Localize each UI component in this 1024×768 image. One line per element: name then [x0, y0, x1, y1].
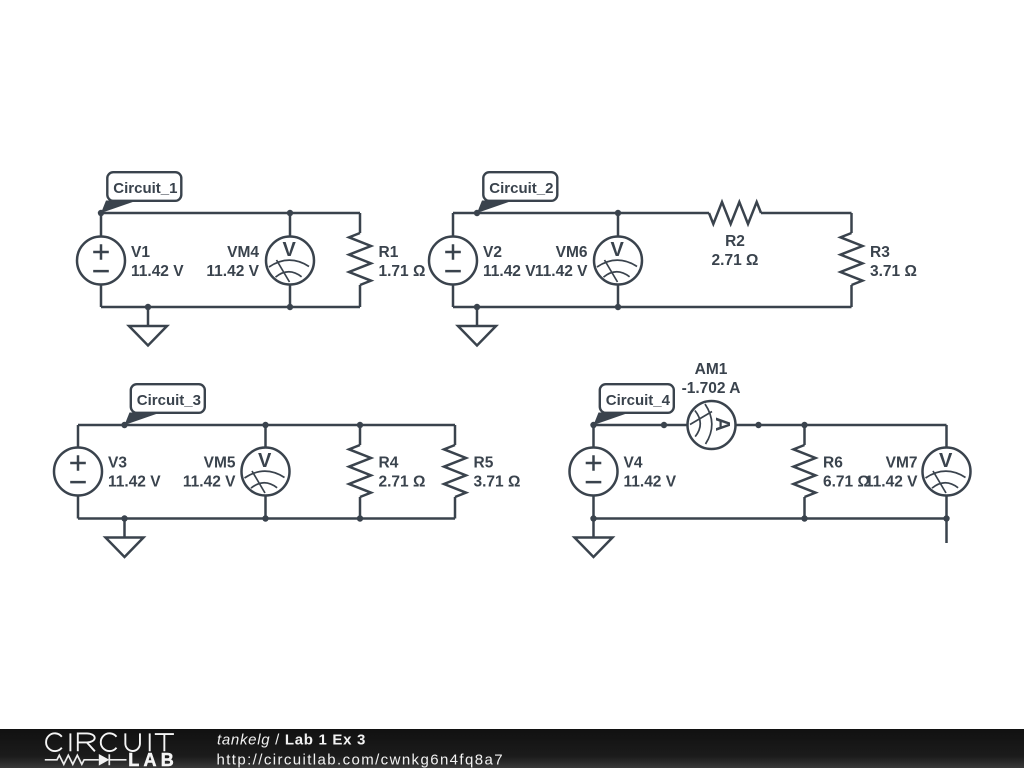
svg-text:AM1: AM1	[695, 361, 728, 378]
svg-text:11.42 V: 11.42 V	[183, 474, 236, 491]
svg-text:11.42 V: 11.42 V	[535, 263, 588, 280]
svg-text:LAB: LAB	[128, 750, 178, 768]
svg-text:Circuit_2: Circuit_2	[489, 180, 553, 197]
svg-text:11.42 V: 11.42 V	[483, 263, 536, 280]
svg-text:V2: V2	[483, 244, 502, 261]
svg-text:R3: R3	[870, 244, 890, 261]
svg-text:V1: V1	[131, 244, 150, 261]
svg-text:R6: R6	[823, 455, 843, 472]
svg-text:R2: R2	[725, 233, 745, 250]
svg-text:VM7: VM7	[886, 455, 918, 472]
svg-text:6.71 Ω: 6.71 Ω	[823, 474, 870, 491]
svg-text:11.42 V: 11.42 V	[865, 474, 918, 491]
svg-text:http://circuitlab.com/cwnkg6n4: http://circuitlab.com/cwnkg6n4fq8a7	[217, 752, 504, 768]
svg-text:11.42 V: 11.42 V	[131, 263, 184, 280]
svg-text:-1.702 A: -1.702 A	[682, 380, 741, 397]
svg-text:3.71 Ω: 3.71 Ω	[870, 263, 917, 280]
svg-text:2.71 Ω: 2.71 Ω	[379, 474, 426, 491]
svg-text:2.71 Ω: 2.71 Ω	[712, 252, 759, 269]
svg-text:tankelg / Lab 1 Ex 3: tankelg / Lab 1 Ex 3	[217, 732, 366, 749]
svg-text:11.42 V: 11.42 V	[206, 263, 259, 280]
svg-text:V4: V4	[624, 455, 643, 472]
svg-text:3.71 Ω: 3.71 Ω	[474, 474, 521, 491]
svg-text:Circuit_1: Circuit_1	[113, 180, 177, 197]
svg-text:VM5: VM5	[204, 455, 236, 472]
svg-text:R4: R4	[379, 455, 399, 472]
svg-text:Circuit_3: Circuit_3	[137, 392, 201, 409]
svg-text:R1: R1	[379, 244, 399, 261]
svg-text:11.42 V: 11.42 V	[624, 474, 677, 491]
svg-text:11.42 V: 11.42 V	[108, 474, 161, 491]
svg-text:VM6: VM6	[556, 244, 588, 261]
svg-text:R5: R5	[474, 455, 494, 472]
svg-text:V3: V3	[108, 455, 127, 472]
svg-text:VM4: VM4	[227, 244, 259, 261]
svg-text:Circuit_4: Circuit_4	[606, 392, 671, 409]
svg-text:1.71 Ω: 1.71 Ω	[379, 263, 426, 280]
